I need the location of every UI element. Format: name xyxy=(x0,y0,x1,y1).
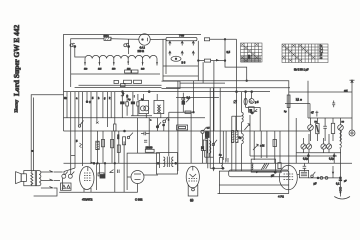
dots on bus xyxy=(93,162,95,164)
cluster A wire low xyxy=(169,111,194,113)
cap 2 xyxy=(144,140,147,142)
mid verticals low xyxy=(207,131,209,168)
wire under coils xyxy=(163,65,198,67)
vertical v7b xyxy=(110,92,112,118)
node labeled 1 xyxy=(307,155,309,157)
IF transformer mid xyxy=(163,157,165,167)
svg-text:µF: µF xyxy=(314,183,317,186)
wire res to coil area xyxy=(198,60,204,62)
svg-text:6µ: 6µ xyxy=(239,137,242,140)
rectifier circle 2 xyxy=(144,106,149,111)
output transformer core xyxy=(34,171,36,186)
hanger phi2 xyxy=(338,125,344,131)
IF coil column xyxy=(242,112,244,122)
IF can nested corner xyxy=(162,81,181,88)
svg-text:125: 125 xyxy=(98,69,102,71)
svg-text:µF: µF xyxy=(344,181,347,183)
left loop wire xyxy=(31,95,63,171)
variable capacitor B3 xyxy=(171,56,181,61)
svg-text:g: g xyxy=(104,97,106,100)
svg-text:47: 47 xyxy=(311,112,314,115)
wire T2 right xyxy=(144,174,158,176)
svg-text:a: a xyxy=(150,120,152,122)
IF coil 1 xyxy=(157,105,158,113)
svg-text:µF: µF xyxy=(271,175,274,178)
comp 317 xyxy=(315,111,318,117)
svg-text:T-09: T-09 xyxy=(179,35,185,38)
vertical m5 xyxy=(236,39,238,131)
svg-text:(p): (p) xyxy=(190,198,193,202)
varicap drops xyxy=(296,118,334,163)
resistor rv2 xyxy=(126,102,129,106)
wire drops to cathode line xyxy=(115,131,124,192)
svg-text:240: 240 xyxy=(141,69,145,71)
T3 pins xyxy=(188,185,198,197)
hanger rect1 xyxy=(316,124,319,134)
switch s2 xyxy=(127,136,129,138)
switch s3 xyxy=(212,143,214,145)
node C xyxy=(86,101,88,103)
tube T1 xyxy=(80,167,94,190)
resistor on x274.8 xyxy=(273,140,277,147)
vertical v4 xyxy=(90,92,92,164)
hanger rect2 xyxy=(331,123,334,133)
big rect dial xyxy=(219,171,288,185)
cluster B contact xyxy=(234,100,237,103)
svg-text:1µ: 1µ xyxy=(219,155,222,157)
wire y152.8 xyxy=(296,152,341,154)
cluster B box low xyxy=(249,107,255,112)
table 2 valve data xyxy=(282,44,328,63)
vertical m2 xyxy=(193,81,195,113)
jack box xyxy=(61,183,72,190)
svg-text:5: 5 xyxy=(92,97,94,100)
resistor mains dropper xyxy=(104,37,111,40)
mid bottom column x122 xyxy=(124,130,126,132)
lamp dial xyxy=(139,34,150,45)
bus y117.7 xyxy=(64,117,206,119)
node dot x198 xyxy=(198,60,200,62)
wire pin2 drop xyxy=(128,39,130,47)
wire from 0,5 to bus xyxy=(225,61,247,81)
speaker xyxy=(16,172,22,184)
IF box mid xyxy=(157,153,178,174)
wire y168.3 xyxy=(210,167,224,169)
svg-text:µ: µ xyxy=(76,140,78,143)
cluster A vertical xyxy=(182,93,184,113)
vertical x274.8 xyxy=(274,131,276,163)
wire T2 left xyxy=(127,176,131,178)
resistor rv3 xyxy=(137,102,139,106)
rectifier circle 1 xyxy=(141,106,146,111)
IF can arrows xyxy=(261,163,269,170)
contact arrows mid xyxy=(110,170,114,173)
vertical to res10000 xyxy=(148,118,150,150)
svg-text:30: 30 xyxy=(342,122,345,124)
vertical x310b xyxy=(309,104,311,119)
antenna arrow xyxy=(351,80,353,92)
bus y80.7 xyxy=(163,81,289,92)
wire inner top xyxy=(71,39,104,87)
svg-text:220 Ω: 220 Ω xyxy=(138,50,145,53)
vertical m6 xyxy=(259,107,261,131)
speaker wires xyxy=(24,171,39,174)
output transformer winding xyxy=(39,171,41,186)
verticals right hangers xyxy=(310,118,312,125)
svg-text:C 382: C 382 xyxy=(135,197,143,201)
wire under transformer xyxy=(71,73,160,75)
vertical v7 xyxy=(107,92,109,127)
svg-text:für E 53 1 µF: für E 53 1 µF xyxy=(294,69,309,72)
wire pin2 drop2 xyxy=(128,47,130,54)
bus y131 xyxy=(64,130,311,132)
rectifier box xyxy=(139,100,149,113)
field coil zigzag xyxy=(31,173,33,185)
components above T3 xyxy=(201,130,204,133)
vertical to T2 xyxy=(137,118,139,153)
IF box xyxy=(154,100,164,113)
left loop wire 2 xyxy=(33,98,35,171)
wire outer top xyxy=(64,35,202,132)
svg-text:4 P2: 4 P2 xyxy=(278,195,284,199)
small glyph row xyxy=(121,95,135,98)
vertical v3b xyxy=(86,92,88,102)
res left of T4 xyxy=(278,163,281,169)
wire y192.2 xyxy=(59,191,138,193)
coil right xyxy=(340,130,342,148)
wire coil box left drop xyxy=(162,39,164,76)
cap below bus right xyxy=(303,163,307,171)
cap 333 xyxy=(332,101,335,108)
cap pair mid xyxy=(226,158,228,163)
connector break xyxy=(32,150,33,151)
table 1 pinout xyxy=(241,43,263,62)
resistor row A2 xyxy=(132,70,138,73)
plug pin 2 xyxy=(124,44,127,47)
resistor r-right xyxy=(287,95,290,108)
coil arrows row2 xyxy=(169,51,195,55)
IF can coil xyxy=(252,163,253,170)
mid-left lower components xyxy=(97,131,99,163)
svg-text:a: a xyxy=(76,97,78,100)
resistor 10000 xyxy=(145,149,154,152)
bus y91.6 xyxy=(64,91,271,93)
varicap pair 1 xyxy=(301,144,312,149)
svg-text:0,1: 0,1 xyxy=(336,183,340,186)
node dots IF xyxy=(157,162,159,164)
wire y60.6 xyxy=(211,60,225,62)
vertical x168.8 xyxy=(168,112,170,156)
small box left xyxy=(205,132,209,138)
node dot right xyxy=(300,99,302,101)
switch top mid 2 xyxy=(163,120,166,123)
resistor row B1 xyxy=(114,80,118,83)
coil box antenna xyxy=(166,37,197,40)
switch s1 xyxy=(78,125,80,127)
vertical v0 xyxy=(66,92,68,118)
cluster B hatched circle xyxy=(251,92,253,99)
arrow down right xyxy=(332,166,334,175)
svg-text:10000: 10000 xyxy=(146,147,154,150)
svg-text:Lord Super GW E 442: Lord Super GW E 442 xyxy=(12,25,21,96)
bus y156 xyxy=(250,155,337,157)
resistor box low xyxy=(177,125,188,130)
wire y103.5 xyxy=(285,103,310,105)
vertical v2 xyxy=(74,92,76,168)
svg-text:110: 110 xyxy=(84,69,88,71)
wire y83.1 xyxy=(180,82,225,84)
node labeled 2 xyxy=(333,155,335,157)
cluster A contact circle xyxy=(182,98,185,101)
tube T3 xyxy=(186,166,199,188)
wire power box right xyxy=(165,39,167,74)
wire y92 right xyxy=(289,91,352,93)
wire to lamp xyxy=(111,38,139,41)
svg-text:C: C xyxy=(89,101,91,104)
switch top mid 1 xyxy=(156,126,158,128)
IF can bottom wire xyxy=(251,171,282,173)
T1 left contacts xyxy=(62,174,66,178)
bottom right chain xyxy=(297,174,299,176)
bus y87.7 xyxy=(166,87,290,89)
cap right pair xyxy=(296,98,300,100)
vertical v2b xyxy=(78,92,80,125)
svg-text:0,5: 0,5 xyxy=(227,51,231,54)
svg-text:Gr: Gr xyxy=(64,97,67,100)
vertical v1 xyxy=(70,92,72,175)
tap labels xyxy=(84,69,145,71)
small res above T1 xyxy=(98,173,104,176)
black comp right of T1 xyxy=(100,175,105,179)
svg-text:4T3/4T2: 4T3/4T2 xyxy=(82,197,93,201)
cluster B wire low xyxy=(246,106,261,108)
svg-text:a-M: a-M xyxy=(260,145,264,148)
hanger cap xyxy=(323,126,327,128)
svg-text:0,1: 0,1 xyxy=(296,100,300,102)
transformer heater winding xyxy=(85,55,157,58)
vertical right x290 xyxy=(288,92,290,166)
plug pin 1 xyxy=(70,44,73,47)
svg-text:µ 5: µ 5 xyxy=(255,101,259,104)
tube T2 xyxy=(131,171,144,184)
bus y163.3 xyxy=(64,162,353,164)
hatched res pair xyxy=(231,131,233,143)
electrolytic c1 xyxy=(121,102,125,104)
wire to junction xyxy=(210,38,237,40)
IF can box low xyxy=(251,159,275,172)
node dot bus2 xyxy=(148,91,150,93)
resistor row B2 xyxy=(124,80,132,83)
coil box bottom xyxy=(163,75,198,77)
svg-text:B 3: B 3 xyxy=(182,62,186,65)
cluster B fuse ellipse xyxy=(245,92,247,108)
svg-text:8µ: 8µ xyxy=(128,99,131,101)
transformer taps right xyxy=(41,171,53,173)
scattered value labels xyxy=(128,99,345,157)
node dot bus1 xyxy=(122,91,124,93)
bus y118 xyxy=(308,117,352,119)
vertical v3 xyxy=(82,92,84,166)
svg-text:Horny: Horny xyxy=(14,99,19,112)
resistor rv1 xyxy=(114,124,116,131)
wire y115.7 xyxy=(131,115,152,117)
svg-text:2µ: 2µ xyxy=(284,111,287,113)
coil arrows row1 xyxy=(169,41,195,45)
ground curve xyxy=(334,197,350,200)
arrow on wire xyxy=(216,59,219,62)
wire vertical x225 xyxy=(224,39,226,60)
vertical v6 xyxy=(102,92,104,118)
vertical v5 xyxy=(96,92,98,121)
cap x206 xyxy=(205,139,208,141)
resistor row B3 xyxy=(134,80,142,83)
svg-text:0,1: 0,1 xyxy=(187,97,191,100)
svg-text:b: b xyxy=(98,97,100,100)
inner rect dial xyxy=(229,170,289,177)
table1 dense rows xyxy=(241,57,261,62)
trimmer arrows xyxy=(244,124,249,130)
verticals above T1 xyxy=(96,163,98,190)
vertical v8 xyxy=(114,92,116,124)
wire T1 bottom xyxy=(62,178,64,190)
T1 pins xyxy=(83,188,85,192)
svg-text:k: k xyxy=(109,97,111,100)
wire pin1 drop xyxy=(75,47,85,58)
vertical m3 xyxy=(202,62,204,83)
under line dial xyxy=(218,193,289,195)
bus y87.5 xyxy=(75,87,162,89)
svg-text:150: 150 xyxy=(112,69,116,71)
svg-text:0,5: 0,5 xyxy=(207,128,211,130)
tube T4 xyxy=(279,165,297,190)
vertical m1 xyxy=(177,81,179,171)
bus y85.2 xyxy=(79,84,162,86)
electrolytic c2 xyxy=(131,102,134,104)
contact marks xyxy=(96,122,99,124)
transformer taps xyxy=(84,57,158,66)
cluster A slash xyxy=(186,99,189,102)
series cap xyxy=(141,132,150,135)
hanger phi1 xyxy=(308,125,314,131)
osc transformer xyxy=(203,140,206,151)
arrow junction down xyxy=(123,92,125,96)
wire coil box right drop xyxy=(197,41,199,76)
cluster A resistor low xyxy=(185,111,191,113)
box around tube T2 xyxy=(127,153,159,190)
resistor top right xyxy=(204,38,209,41)
wire drops cluster xyxy=(122,92,161,118)
IF coil 2 xyxy=(160,105,161,113)
svg-text:b: b xyxy=(168,120,170,122)
wire y97.4 xyxy=(176,96,219,98)
wire lamp to coilbox xyxy=(150,38,166,40)
varicap pair 2 xyxy=(321,144,332,149)
cluster A resistor blob xyxy=(182,101,185,104)
hanger double circle xyxy=(349,130,355,136)
cluster B bus dots xyxy=(236,91,238,93)
resistor row A1 xyxy=(125,70,131,73)
svg-text:110Ω: 110Ω xyxy=(104,36,109,38)
vertical x220.2 xyxy=(219,88,221,158)
vertical m4 xyxy=(213,61,215,131)
resistor on bus xyxy=(121,84,126,87)
resistor mid right xyxy=(204,59,210,62)
res v mid xyxy=(220,158,223,164)
svg-text:0,1µ: 0,1µ xyxy=(303,158,308,161)
vertical x308 xyxy=(307,81,309,118)
connector block right xyxy=(299,170,308,177)
svg-text:0,1µ: 0,1µ xyxy=(329,158,334,161)
coil below res xyxy=(221,163,222,168)
